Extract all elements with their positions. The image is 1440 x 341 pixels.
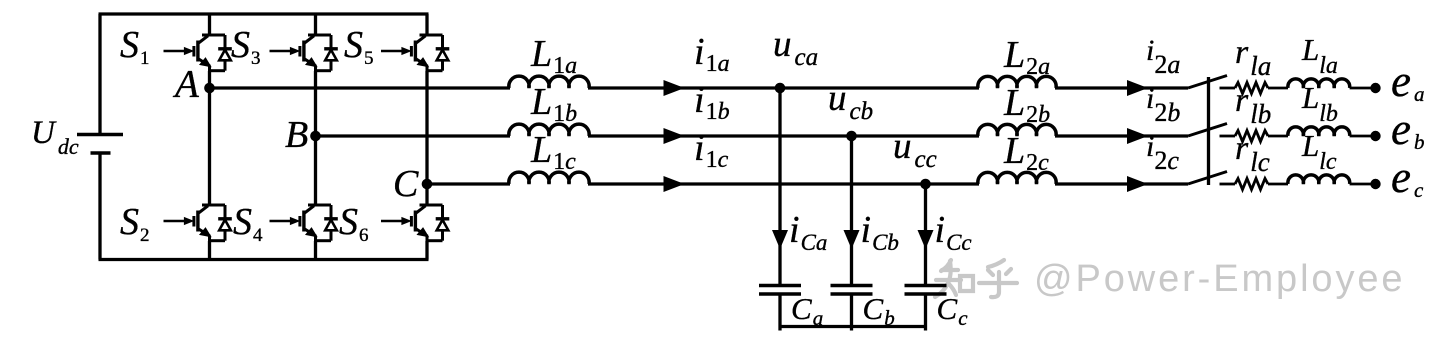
inductor Lla (1288, 79, 1350, 88)
wire resistor to inductor L_lb (1268, 135, 1288, 138)
terminal e_a dot (1370, 83, 1380, 93)
node A junction (204, 83, 215, 94)
wire node B down to S4 (314, 136, 317, 205)
wire capacitor branch b (850, 136, 853, 284)
wire node C down to S6 (425, 184, 428, 205)
capacitor Cb bottom plate (831, 292, 873, 296)
wire S3 emitter to node B (314, 71, 317, 136)
node C junction (422, 179, 433, 190)
wire to resistor r_la (1220, 87, 1236, 90)
transistor S2 IGBT (164, 205, 232, 241)
inductor L1c (509, 172, 589, 184)
wire phase b to switch (1055, 134, 1188, 137)
wire phase a to switch (1055, 86, 1188, 89)
watermark zhihu logo 乎 (979, 260, 1017, 297)
resistor r_la (1235, 83, 1268, 94)
wire inductor to terminal e_b (1350, 135, 1375, 138)
transistor S5 IGBT (381, 35, 449, 71)
svg-text:C: C (393, 163, 419, 205)
inductor L2c (978, 172, 1056, 184)
node u_cb junction (846, 131, 857, 142)
capacitor Cb top plate (831, 284, 873, 288)
current arrow i1c (664, 176, 685, 192)
svg-text:@Power-Employee: @Power-Employee (1034, 258, 1405, 300)
inductor L2b (978, 124, 1056, 136)
current arrow iCb (844, 230, 860, 249)
wire inductor to terminal e_c (1350, 183, 1375, 186)
wire leg B top stub (314, 14, 317, 35)
svg-text:B: B (285, 114, 308, 156)
wire phase a from node (210, 86, 511, 89)
wire node A down to S2 (208, 88, 211, 205)
wire phase c from node (427, 182, 510, 185)
capacitor Ca top plate (759, 284, 801, 288)
wire S6 emitter to bottom bus (425, 241, 428, 260)
wire capacitor b to neutral (850, 294, 853, 331)
wire left bus lower (98, 153, 101, 260)
transistor S1 IGBT (164, 35, 232, 71)
inductor L2a (978, 76, 1056, 88)
wire to resistor r_lb (1220, 135, 1236, 138)
inductor Llb (1288, 127, 1350, 136)
wire S1 emitter to node A (208, 71, 211, 88)
switch blade phase a (1188, 76, 1227, 89)
capacitor Ca bottom plate (759, 292, 801, 296)
wire phase b from node (316, 134, 511, 137)
node u_ca junction (775, 83, 786, 94)
capacitor Cc bottom plate (905, 292, 947, 296)
wire inductor to terminal e_a (1350, 87, 1375, 90)
node u_cc junction (920, 179, 931, 190)
wire top dc bus (99, 12, 429, 15)
wire to resistor r_lc (1220, 183, 1236, 186)
wire phase c middle (588, 182, 979, 185)
wire S2 emitter to bottom bus (208, 241, 211, 260)
wire capacitor c to neutral (924, 294, 927, 331)
current arrow iCa (772, 230, 788, 249)
wire capacitor branch c (924, 184, 927, 284)
current arrow i1b (664, 128, 685, 144)
wire bottom dc bus (99, 258, 429, 261)
switch gang linkage bar (1207, 77, 1210, 185)
wire neutral bus (780, 325, 926, 328)
wire resistor to inductor L_la (1268, 87, 1288, 90)
current arrow i1a (664, 80, 685, 96)
wire resistor to inductor L_lc (1268, 183, 1288, 186)
terminal e_c dot (1370, 179, 1380, 189)
wire S4 emitter to bottom bus (314, 241, 317, 260)
switch blade phase b (1188, 124, 1227, 137)
svg-text:A: A (172, 63, 199, 106)
resistor r_lb (1235, 131, 1268, 142)
inductor L1b (509, 124, 589, 136)
wire capacitor a to neutral (778, 294, 781, 331)
current arrow i2b (1127, 128, 1148, 144)
wire left bus upper (98, 14, 101, 133)
inductor L1a (509, 76, 589, 88)
terminal e_b dot (1370, 131, 1380, 141)
transistor S4 IGBT (270, 205, 338, 241)
wire phase b middle (588, 134, 979, 137)
current arrow i2a (1127, 80, 1148, 96)
wire phase c to switch (1055, 182, 1188, 185)
resistor r_lc (1235, 179, 1268, 190)
switch blade phase c (1188, 172, 1227, 185)
transistor S3 IGBT (270, 35, 338, 71)
wire capacitor branch a (778, 88, 781, 284)
watermark zhihu logo 知 (935, 260, 973, 297)
wire leg C top stub (425, 14, 428, 35)
wire S5 emitter to node C (425, 71, 428, 184)
wire leg A top stub (208, 14, 211, 35)
node B junction (310, 131, 321, 142)
inductor Llc (1288, 175, 1350, 184)
transistor S6 IGBT (381, 205, 449, 241)
wire phase a middle (588, 86, 979, 89)
capacitor Cc top plate (905, 284, 947, 288)
current arrow i2c (1127, 176, 1148, 192)
current arrow iCc (918, 230, 934, 249)
battery U_dc long plate (77, 133, 123, 137)
battery U_dc short plate (91, 151, 111, 155)
